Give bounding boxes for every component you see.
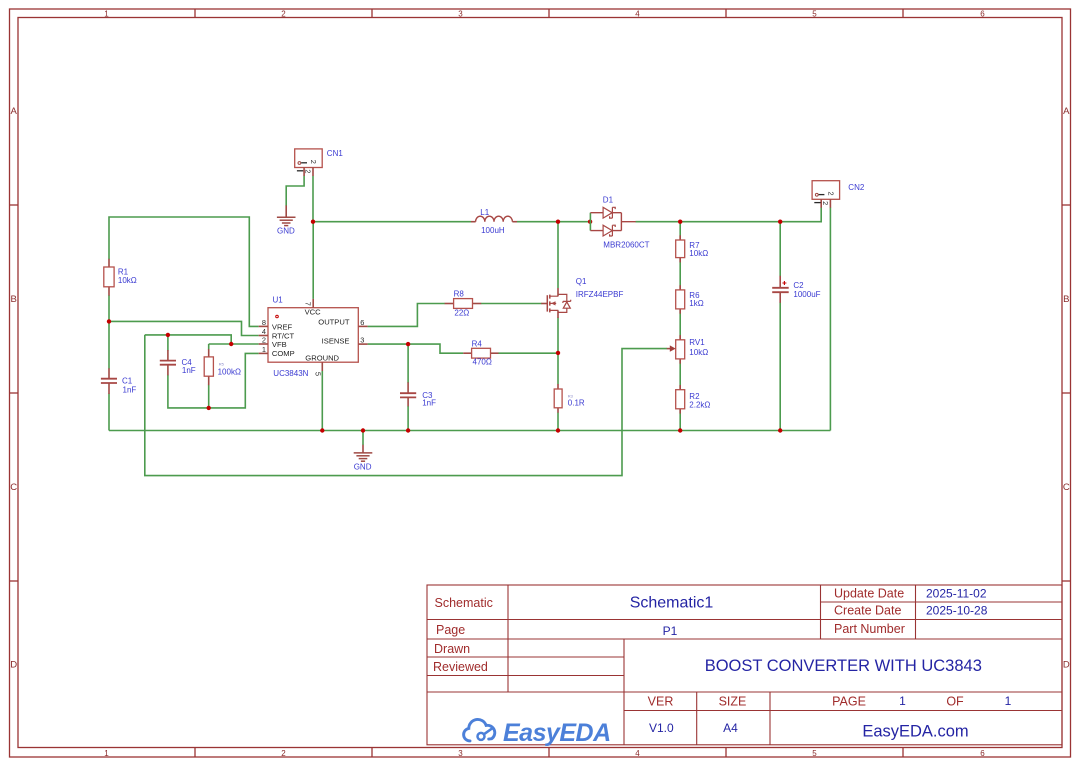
capacitor C4 — [160, 350, 176, 375]
svg-text:2.2kΩ: 2.2kΩ — [689, 400, 710, 409]
svg-text:U1: U1 — [273, 296, 284, 305]
junction node ISENSE C3 — [406, 342, 410, 346]
wire left rail R1 top / VREF net horizontal — [109, 217, 259, 326]
resistor R5 100k — [204, 349, 213, 385]
junction node D1 anode — [588, 220, 592, 224]
svg-text:CN1: CN1 — [327, 149, 344, 158]
wire OUTPUT pin to R8 — [368, 304, 445, 327]
wire D1 output to R7 node to C2 node to CN2 pin1 — [636, 208, 822, 222]
svg-text:EasyEDA.com: EasyEDA.com — [862, 723, 968, 741]
junction node R2 ground rail — [678, 428, 682, 432]
TITLEBLOCK — [427, 585, 1062, 747]
wire node to RT/CT pin — [109, 321, 259, 335]
svg-text:Reviewed: Reviewed — [433, 660, 488, 674]
svg-text:Create Date: Create Date — [834, 603, 901, 617]
junction node Q1 source R4 — [556, 351, 560, 355]
frame column labels top — [104, 9, 985, 18]
svg-text:Drawn: Drawn — [434, 642, 470, 656]
wire GND symbol stub at ground rail — [362, 431, 364, 446]
label C4 — [182, 358, 196, 375]
label C3 — [422, 391, 436, 408]
junction node C2 top — [778, 220, 782, 224]
svg-text:2: 2 — [826, 192, 835, 196]
label RV1 — [689, 338, 708, 357]
U1 pin numbers — [262, 302, 364, 376]
svg-text:Schematic1: Schematic1 — [630, 595, 714, 612]
svg-text:6: 6 — [360, 318, 364, 327]
label L1 — [480, 208, 505, 235]
wire C3 bottom — [407, 406, 409, 431]
svg-text:1: 1 — [104, 749, 109, 758]
wire R5 bottom — [208, 385, 210, 408]
wire CN1 pin1 to GND — [286, 176, 304, 206]
svg-text:10kΩ: 10kΩ — [689, 249, 708, 258]
svg-text:D: D — [1063, 660, 1070, 671]
svg-text:C: C — [1063, 482, 1070, 493]
label CN2 — [848, 183, 865, 192]
label D1 — [603, 195, 650, 249]
svg-text:Schematic: Schematic — [435, 596, 493, 610]
svg-text:MBR2060CT: MBR2060CT — [603, 241, 649, 250]
svg-text:Page: Page — [436, 623, 465, 637]
connector CN1 — [295, 149, 323, 176]
junction node R5 bottom COMP — [207, 406, 211, 410]
svg-text:A4: A4 — [723, 721, 738, 735]
svg-text:8: 8 — [262, 318, 266, 327]
label Q1 — [576, 277, 624, 299]
wire Q1 source down to R3 — [557, 318, 559, 385]
wire CN1 pin2 down to VIN rail — [312, 176, 314, 222]
junction node R3 ground rail — [556, 428, 560, 432]
junction node C3 ground rail — [406, 428, 410, 432]
U1 pin names — [272, 307, 350, 362]
label C2 — [793, 281, 820, 299]
svg-text:2: 2 — [262, 336, 266, 345]
op-amp U1 UC3843N — [259, 299, 368, 371]
resistor R6 — [676, 285, 685, 314]
svg-text:Q1: Q1 — [576, 277, 587, 286]
potentiometer RV1 — [667, 335, 685, 364]
wire VIN rail CN1 to L1 — [313, 221, 471, 223]
svg-text:2: 2 — [281, 749, 286, 758]
junction node U1 ground rail — [320, 428, 324, 432]
wire GROUND pin down to ground rail — [321, 371, 323, 431]
ground GND at CN1 — [277, 205, 296, 225]
svg-text:2: 2 — [281, 9, 286, 18]
svg-text:A: A — [1063, 106, 1070, 117]
svg-text:R4: R4 — [472, 340, 483, 349]
wire R5 top — [208, 344, 210, 350]
wire ISENSE pin to R4 — [368, 344, 464, 353]
svg-text:C2: C2 — [793, 281, 804, 290]
svg-text:1: 1 — [104, 9, 109, 18]
label R6 — [689, 291, 703, 308]
resistor R1 — [104, 259, 114, 296]
svg-text:2: 2 — [821, 201, 830, 205]
label GND at CN1 — [277, 226, 295, 235]
svg-text:VFB: VFB — [272, 340, 287, 349]
transistor Q1 IRFZ44EPBF — [541, 288, 571, 318]
label CN1 — [327, 149, 344, 158]
title block outline — [427, 585, 1062, 745]
frame column ticks top — [195, 9, 903, 18]
frame column labels bottom — [104, 749, 985, 758]
svg-text:2025-11-02: 2025-11-02 — [926, 586, 987, 600]
svg-text:1nF: 1nF — [123, 385, 137, 394]
svg-text:PAGE: PAGE — [832, 694, 866, 708]
svg-text:VER: VER — [648, 694, 674, 708]
svg-text:COMP: COMP — [272, 349, 295, 358]
frame row ticks right — [1062, 205, 1071, 581]
svg-text:5: 5 — [812, 9, 817, 18]
svg-text:B: B — [1063, 294, 1069, 305]
label U1 — [273, 296, 309, 379]
wire C1 bottom to ground rail — [108, 394, 110, 431]
svg-text:RV1: RV1 — [689, 338, 705, 347]
frame row labels left — [10, 106, 17, 671]
svg-text:1: 1 — [262, 345, 266, 354]
svg-text:V1.0: V1.0 — [649, 721, 674, 735]
resistor R4 — [463, 348, 498, 358]
svg-text:100kΩ: 100kΩ — [218, 367, 241, 376]
diode D1 MBR2060CT — [590, 207, 635, 236]
wire C4 top — [167, 335, 169, 351]
svg-text:6: 6 — [980, 749, 985, 758]
label R2 — [689, 392, 710, 409]
svg-text:3: 3 — [360, 336, 364, 345]
svg-text:100uH: 100uH — [481, 226, 505, 235]
svg-text:OF: OF — [946, 694, 964, 708]
svg-text:OUTPUT: OUTPUT — [318, 318, 350, 327]
capacitor C1 — [101, 368, 117, 394]
svg-text:1nF: 1nF — [182, 366, 196, 375]
frame column ticks bottom — [195, 748, 903, 758]
wire L1 to Q1 drain node — [517, 221, 590, 223]
junction node GND symbol rail — [361, 428, 365, 432]
junction node R1 bottom — [107, 319, 111, 323]
EasyEDA logo — [464, 719, 611, 747]
svg-text:GROUND: GROUND — [305, 354, 339, 363]
wire right divider column R7-R6-RV1-R2 — [679, 222, 681, 431]
wire VFB pin to divider net — [145, 335, 259, 344]
svg-text:470Ω: 470Ω — [473, 358, 492, 367]
svg-text:R3: R3 — [568, 393, 574, 398]
svg-text:4: 4 — [635, 749, 640, 758]
wire Q1 drain vertical — [557, 222, 559, 288]
junction node C2 ground rail — [778, 428, 782, 432]
label R4 — [472, 340, 492, 367]
svg-text:10kΩ: 10kΩ — [118, 276, 137, 285]
svg-text:1: 1 — [899, 694, 906, 708]
svg-text:VREF: VREF — [272, 322, 293, 331]
svg-text:7: 7 — [304, 302, 313, 306]
resistor R8 — [445, 299, 482, 309]
svg-text:6: 6 — [980, 9, 985, 18]
junction node VFB — [229, 342, 233, 346]
junction node C4 top — [166, 333, 170, 337]
wire VCC pin up to VIN rail — [312, 222, 314, 299]
svg-text:D1: D1 — [603, 195, 614, 204]
title block labels — [433, 586, 964, 708]
resistor R7 — [676, 235, 685, 262]
svg-text:C1: C1 — [122, 377, 133, 386]
svg-text:GND: GND — [354, 462, 372, 471]
wire R1 bottom to node — [108, 295, 110, 321]
svg-text:1000uF: 1000uF — [793, 290, 820, 299]
svg-text:CN2: CN2 — [848, 183, 865, 192]
svg-text:2: 2 — [304, 169, 313, 173]
svg-text:10kΩ: 10kΩ — [689, 348, 708, 357]
connector CN2 — [812, 181, 840, 208]
wire COMP net bottom rail — [168, 353, 259, 408]
capacitor C3 — [400, 382, 416, 406]
svg-text:1: 1 — [1005, 694, 1012, 708]
svg-text:5: 5 — [812, 749, 817, 758]
label R5 — [218, 361, 241, 376]
svg-text:R8: R8 — [454, 290, 465, 299]
resistor R3 0.1R — [554, 384, 562, 413]
svg-text:0.1R: 0.1R — [568, 399, 585, 408]
svg-text:P1: P1 — [663, 624, 678, 638]
wire feedback loop to RV1 wiper — [145, 335, 667, 476]
wire C1 top — [108, 321, 110, 368]
junction node Q1 drain — [556, 220, 560, 224]
svg-text:VCC: VCC — [305, 307, 322, 316]
wire R4 right to Q1 source node — [498, 352, 558, 354]
wire C3 top — [407, 344, 409, 383]
wire R3 bottom to ground rail — [557, 413, 559, 431]
svg-text:Part Number: Part Number — [834, 622, 905, 636]
svg-text:22Ω: 22Ω — [454, 308, 469, 317]
svg-text:BOOST CONVERTER WITH UC3843: BOOST CONVERTER WITH UC3843 — [705, 657, 982, 675]
svg-text:3: 3 — [458, 749, 463, 758]
junction node VCC-CN1 — [311, 220, 315, 224]
svg-text:RT/CT: RT/CT — [272, 331, 295, 340]
svg-text:UC3843N: UC3843N — [273, 369, 308, 378]
svg-text:EasyEDA: EasyEDA — [503, 719, 611, 747]
svg-text:Update Date: Update Date — [834, 586, 904, 600]
label C1 — [122, 377, 136, 395]
svg-text:L1: L1 — [480, 208, 489, 217]
svg-text:2025-10-28: 2025-10-28 — [926, 603, 988, 617]
svg-text:4: 4 — [635, 9, 640, 18]
svg-text:GND: GND — [277, 226, 295, 235]
svg-text:R1: R1 — [118, 267, 129, 276]
label R7 — [689, 241, 708, 258]
svg-text:C: C — [10, 482, 17, 493]
label GND at U1 — [354, 462, 372, 471]
svg-text:R5: R5 — [219, 361, 225, 366]
inductor L1 — [471, 216, 517, 222]
svg-text:3: 3 — [458, 9, 463, 18]
svg-text:SIZE: SIZE — [719, 694, 747, 708]
svg-text:1kΩ: 1kΩ — [689, 299, 703, 308]
wire CN2 pin2 down to ground rail — [829, 208, 831, 431]
wire C2 vertical top — [779, 222, 781, 277]
label R3 — [568, 393, 585, 407]
label R8 — [454, 290, 470, 318]
title block grid lines — [427, 585, 1062, 745]
wire R8 to Q1 gate — [481, 303, 542, 305]
title block values — [630, 586, 1012, 740]
svg-text:5: 5 — [314, 372, 323, 376]
svg-text:A: A — [11, 106, 18, 117]
capacitor C2 polarized — [772, 276, 789, 303]
svg-text:2: 2 — [309, 160, 318, 164]
frame row labels right — [1063, 106, 1070, 671]
svg-text:B: B — [11, 294, 17, 305]
ground GND at U1 — [354, 445, 373, 461]
frame row ticks left — [10, 205, 19, 581]
svg-text:ISENSE: ISENSE — [322, 336, 350, 345]
junction node R7 top — [678, 220, 682, 224]
svg-text:IRFZ44EPBF: IRFZ44EPBF — [576, 290, 624, 299]
svg-text:1nF: 1nF — [422, 399, 436, 408]
svg-text:D: D — [10, 660, 17, 671]
label R1 — [118, 267, 137, 285]
wire ground rail — [109, 430, 830, 432]
wire C2 vertical bottom — [779, 302, 781, 430]
resistor R2 — [676, 385, 685, 414]
